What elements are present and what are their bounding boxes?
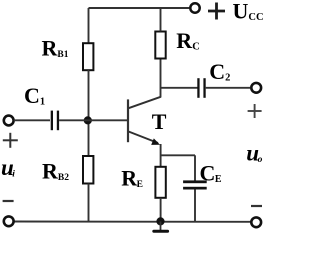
wire RC to rail	[160, 8, 162, 32]
terminal output top	[251, 83, 261, 93]
wire emitter to CE	[161, 154, 195, 156]
transistor T base bar	[127, 99, 129, 142]
wire CE upper vertical	[194, 155, 196, 181]
wire collector vertical	[160, 59, 162, 98]
wire left branch lower	[88, 184, 90, 222]
resistor RB2	[83, 156, 93, 184]
capacitor C2	[197, 78, 205, 98]
wire left branch middle	[88, 70, 90, 157]
resistor RE	[155, 167, 165, 198]
wire CE lower vertical	[194, 190, 196, 222]
minus input	[3, 200, 14, 202]
transistor collector diagonal	[129, 97, 161, 108]
resistor RB1	[83, 43, 93, 70]
wire left branch upper	[88, 8, 90, 44]
ground stub	[160, 221, 162, 230]
plus Ucc	[208, 3, 225, 20]
minus output	[251, 205, 262, 207]
wire emitter vertical	[160, 144, 162, 168]
wire RE to bottom rail	[160, 198, 162, 222]
wire collector to C2	[161, 87, 198, 89]
wire input to C1	[14, 119, 50, 121]
capacitor CE	[183, 180, 207, 189]
terminal input bottom	[4, 216, 14, 226]
wire bottom rail	[14, 221, 251, 223]
terminal output bottom	[251, 217, 261, 227]
terminal input top	[4, 116, 14, 126]
junction node dot at base divider	[84, 116, 92, 124]
plus output	[248, 104, 262, 118]
junction node dot emitter/ground	[156, 217, 164, 225]
svg-text:T: T	[152, 109, 167, 134]
plus input	[3, 133, 18, 148]
resistor RC	[155, 32, 165, 59]
svg-text:ui: ui	[1, 155, 15, 180]
transistor emitter diagonal	[129, 132, 159, 144]
wire C1 to base	[59, 119, 127, 121]
transistor emitter arrowhead	[151, 138, 160, 145]
ground bar	[152, 230, 169, 233]
capacitor C1	[51, 111, 59, 131]
terminal Ucc	[190, 3, 199, 12]
wire C2 to output terminal	[206, 87, 250, 89]
wire top supply rail	[89, 7, 190, 9]
